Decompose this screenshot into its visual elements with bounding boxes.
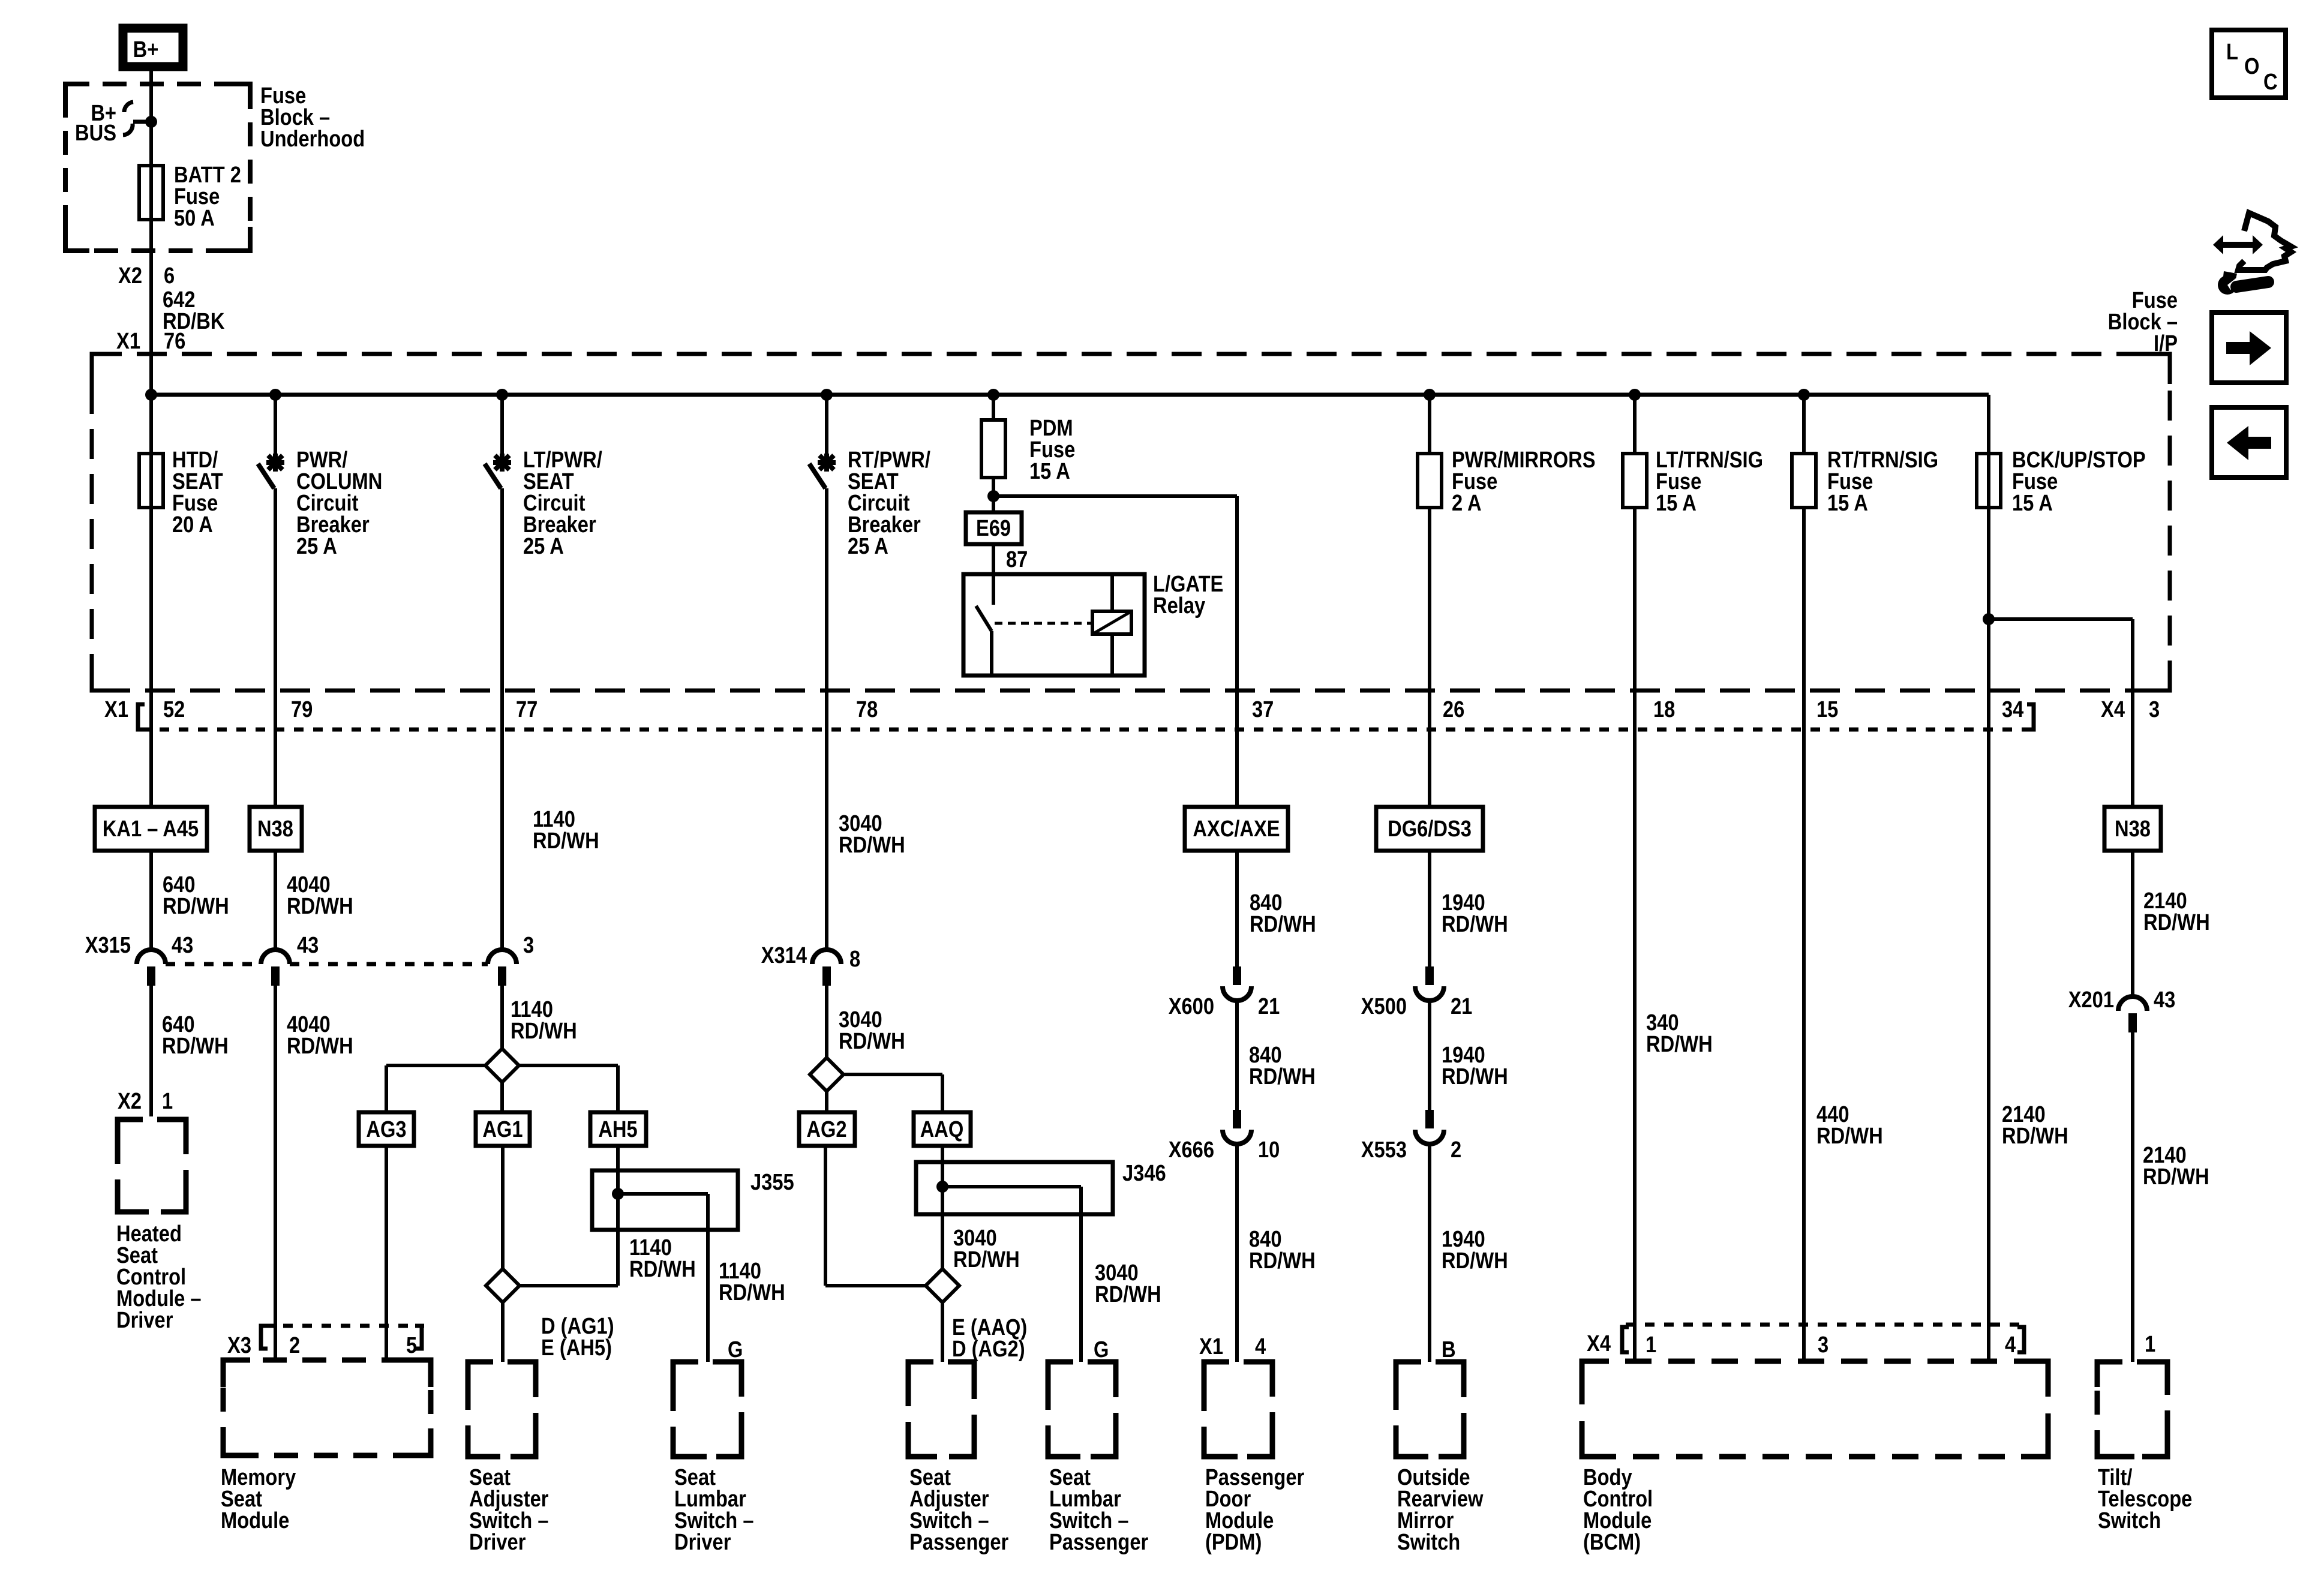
svg-text:37: 37 xyxy=(1252,697,1274,722)
svg-text:87: 87 xyxy=(1006,547,1028,572)
wire AG2 down xyxy=(824,1146,827,1286)
wire bus to LT/PWR/SEAT breaker xyxy=(500,395,504,457)
svg-text:G: G xyxy=(1094,1337,1109,1362)
svg-text:3: 3 xyxy=(2149,697,2160,722)
wire breaker to pin 77 xyxy=(500,488,504,950)
bus junction RT/TRN/SIG xyxy=(1798,389,1810,401)
connector X666 xyxy=(1233,1110,1241,1128)
wire 840 to PDM module xyxy=(1235,1143,1239,1362)
connector N38 (driver) xyxy=(250,807,302,851)
connector X500 xyxy=(1425,966,1434,985)
junction in J355 xyxy=(612,1188,624,1200)
bus junction PDM xyxy=(987,389,999,401)
connector X3 bracket xyxy=(261,1326,268,1349)
svg-text:X1: X1 xyxy=(116,328,140,354)
connector X201 xyxy=(2118,996,2147,1011)
junction B+ bus xyxy=(145,116,157,128)
bus junction HTD/SEAT xyxy=(145,389,157,401)
HTD/SEAT fuse 20 A xyxy=(139,454,163,508)
adjustable steering column icon xyxy=(2222,242,2253,248)
wire 640 to heated seat module xyxy=(149,983,153,1116)
svg-text:G: G xyxy=(728,1337,743,1362)
bus junction PWR/COLUMN xyxy=(269,389,281,401)
svg-text:J355: J355 xyxy=(750,1169,794,1195)
connector X3 dotted line at memory seat module xyxy=(264,1324,424,1328)
svg-text:43: 43 xyxy=(2154,987,2175,1013)
connector X1 bracket xyxy=(138,704,145,730)
svg-text:X2: X2 xyxy=(118,263,142,289)
connector X4 end bracket xyxy=(2017,1327,2024,1352)
passenger door module box xyxy=(1204,1362,1272,1457)
circuit breaker PWR/COLUMN 25 A xyxy=(266,454,284,472)
splice diamond (1140 driver upper) xyxy=(485,1049,519,1082)
connector AXC/AXE xyxy=(1185,807,1288,851)
wire breaker to pin 79 xyxy=(274,488,277,950)
svg-text:X600: X600 xyxy=(1169,993,1214,1019)
wire diamond to seat adjuster driver xyxy=(501,1302,505,1362)
splice AAQ xyxy=(914,1112,971,1146)
LOC reference box xyxy=(2212,30,2286,98)
svg-text:X500: X500 xyxy=(1361,993,1407,1019)
svg-text:E69: E69 xyxy=(976,515,1011,541)
wire bus to RT/PWR/SEAT breaker xyxy=(825,395,828,457)
splice AG3 xyxy=(359,1112,414,1146)
wire diamond to AG3 xyxy=(386,1064,486,1067)
junction below PDM fuse xyxy=(987,490,999,502)
svg-text:N38: N38 xyxy=(257,816,293,842)
wire J355 tap xyxy=(618,1192,708,1196)
svg-text:AH5: AH5 xyxy=(598,1116,637,1142)
wire diamond to AG2 xyxy=(825,1091,828,1112)
svg-text:3: 3 xyxy=(1818,1332,1828,1358)
svg-text:43: 43 xyxy=(172,932,193,958)
bus junction LT/PWR/SEAT xyxy=(496,389,508,401)
splice diamond passenger seat adjuster xyxy=(926,1269,959,1302)
junction in J346 xyxy=(936,1181,948,1193)
splice AG2 xyxy=(799,1112,855,1146)
wire bus to PDM fuse xyxy=(992,395,995,420)
connector X4 bracket xyxy=(1622,1327,1629,1352)
wire AAQ into J346 xyxy=(941,1146,944,1214)
circuit breaker LT/PWR/SEAT 25 A xyxy=(493,454,511,472)
body control module box xyxy=(1582,1361,2048,1457)
wire 4040 to memory seat module xyxy=(274,983,277,1362)
splice diamond driver seat adjuster xyxy=(486,1269,520,1302)
svg-text:4: 4 xyxy=(1255,1334,1266,1359)
wire J355 to seat lumbar driver G xyxy=(706,1194,710,1362)
svg-text:DG6/DS3: DG6/DS3 xyxy=(1388,816,1472,842)
wire RT/TRN/SIG fuse to BCM pin 3 xyxy=(1802,507,1806,1362)
wire J346 to seat lumbar passenger G xyxy=(1079,1187,1083,1362)
svg-text:D (AG1)E (AH5): D (AG1)E (AH5) xyxy=(541,1313,614,1361)
tilt/telescope switch box xyxy=(2097,1362,2167,1457)
wire AH5 into J355 xyxy=(616,1146,620,1230)
svg-text:X666: X666 xyxy=(1169,1137,1214,1163)
seat adjuster switch driver box xyxy=(468,1362,536,1457)
svg-text:X3: X3 xyxy=(227,1332,251,1358)
svg-text:X201: X201 xyxy=(2068,987,2114,1013)
svg-text:26: 26 xyxy=(1443,697,1464,722)
L/GATE relay xyxy=(963,574,1145,676)
wire B+ to fuse block underhood xyxy=(149,71,153,950)
wire junction to PDM branch xyxy=(993,494,1237,498)
svg-text:B+: B+ xyxy=(133,37,159,62)
svg-text:76: 76 xyxy=(164,328,185,354)
seat lumbar switch passenger box xyxy=(1048,1362,1116,1457)
bus junction RT/PWR/SEAT xyxy=(821,389,833,401)
wire AAQ below J346 xyxy=(941,1214,944,1269)
wire PWR/MIRRORS fuse down xyxy=(1428,507,1431,966)
svg-text:77: 77 xyxy=(516,697,538,722)
svg-text:PDMFuse15 A: PDMFuse15 A xyxy=(1029,415,1075,484)
wire BCK/UP/STOP fuse to BCM pin 4 xyxy=(1987,507,1990,1362)
connector DG6/DS3 xyxy=(1376,807,1483,851)
svg-text:X4: X4 xyxy=(2101,697,2125,722)
connector X315 terminal 3 (1140) xyxy=(488,950,517,964)
wire to driver adjuster diamond xyxy=(520,1284,618,1287)
splice AH5 xyxy=(590,1112,646,1146)
svg-text:21: 21 xyxy=(1258,993,1280,1019)
fuse block underhood dashed box xyxy=(65,84,250,251)
connector X4 dotted line at BCM xyxy=(1626,1323,2022,1327)
svg-text:34: 34 xyxy=(2002,697,2024,722)
svg-text:X315: X315 xyxy=(85,932,131,958)
B+ power symbol box xyxy=(123,28,183,67)
wire 1940 to X553 xyxy=(1428,1000,1431,1110)
B+ BUS terminal symbol xyxy=(124,102,133,112)
connector X1 end bracket xyxy=(2027,704,2034,730)
wire 1140 to splice diamond xyxy=(500,983,504,1049)
bus wire inside fuse block xyxy=(151,393,1989,397)
bus junction PWR/MIRRORS xyxy=(1424,389,1436,401)
svg-text:X1: X1 xyxy=(1199,1334,1223,1359)
wire 840 to X666 xyxy=(1235,1000,1239,1110)
svg-text:X1: X1 xyxy=(104,697,128,722)
wire diamond to seat adjuster passenger xyxy=(941,1302,944,1362)
wire down to AH5 xyxy=(616,1065,620,1112)
wire bus to LT/TRN/SIG fuse xyxy=(1633,395,1637,454)
svg-text:E (AAQ)D (AG2): E (AAQ)D (AG2) xyxy=(952,1314,1027,1362)
svg-text:43: 43 xyxy=(297,932,319,958)
junction below BCK/UP/STOP fuse xyxy=(1983,613,1995,625)
svg-text:10: 10 xyxy=(1258,1137,1280,1163)
inline connector X315 dotted line xyxy=(166,962,261,966)
svg-text:1: 1 xyxy=(162,1088,173,1114)
wire E69 to relay pin 87 xyxy=(992,544,995,574)
wire AG3 to memory seat pin 5 xyxy=(385,1146,388,1362)
connector X314 terminal 8 xyxy=(812,950,841,964)
svg-text:J346: J346 xyxy=(1122,1160,1166,1186)
svg-text:B: B xyxy=(1442,1337,1456,1362)
svg-text:AG1: AG1 xyxy=(482,1116,523,1142)
svg-text:X4: X4 xyxy=(1587,1331,1611,1356)
svg-text:6: 6 xyxy=(164,263,175,289)
wire to passenger adjuster diamond xyxy=(825,1284,926,1287)
wire breaker to pin 78 xyxy=(825,488,828,950)
wire PDM fuse to E69 xyxy=(992,478,995,512)
svg-text:AXC/AXE: AXC/AXE xyxy=(1193,816,1280,842)
connector X3 end bracket xyxy=(415,1326,422,1349)
wire bus to RT/TRN/SIG fuse xyxy=(1802,395,1806,454)
outside rearview mirror switch box xyxy=(1396,1362,1464,1457)
svg-text:18: 18 xyxy=(1653,697,1675,722)
svg-text:79: 79 xyxy=(291,697,313,722)
svg-text:1: 1 xyxy=(1646,1332,1656,1358)
wire 1940 to mirror switch xyxy=(1428,1143,1431,1362)
heated seat control module box xyxy=(118,1119,186,1212)
svg-text:AAQ: AAQ xyxy=(920,1116,964,1142)
connector X315 terminal 43 (640) xyxy=(137,950,166,964)
svg-text:4: 4 xyxy=(2005,1332,2016,1358)
svg-text:3: 3 xyxy=(523,932,534,958)
memory seat module box xyxy=(223,1360,431,1455)
wire diamond to AAQ xyxy=(843,1073,942,1076)
splice diamond (3040 passenger upper) xyxy=(810,1058,843,1091)
seat adjuster switch passenger box xyxy=(908,1362,974,1457)
BCK/UP/STOP fuse 15 A xyxy=(1977,454,2001,508)
splice pack J355 xyxy=(592,1170,738,1230)
forward reference arrow box xyxy=(2212,313,2286,383)
svg-text:X2: X2 xyxy=(118,1088,142,1114)
connector X1 dotted line at fuse block bottom xyxy=(140,728,2038,732)
wire AH5 below J355 xyxy=(616,1230,620,1286)
wire 3040 to splice diamond xyxy=(825,983,828,1058)
wire fuse to KA1 connector pin 52 xyxy=(149,507,153,950)
connector X315 terminal 43 (4040) xyxy=(261,950,290,964)
fuse block I/P dashed box xyxy=(92,354,2170,691)
wire bus to PWR/MIRRORS fuse xyxy=(1428,395,1431,454)
svg-text:78: 78 xyxy=(856,697,878,722)
wire 2140 to tilt switch xyxy=(2131,1032,2134,1362)
seat lumbar switch driver box xyxy=(673,1362,741,1457)
wire down to AAQ xyxy=(941,1074,944,1112)
terminal E69 xyxy=(966,512,1022,544)
wire J346 tap xyxy=(942,1185,1081,1188)
splice AG1 xyxy=(476,1112,530,1146)
svg-text:2: 2 xyxy=(1451,1137,1461,1163)
wire bus to PWR/COLUMN breaker xyxy=(274,395,277,457)
wire tilt branch down to X4 pin 3 xyxy=(2131,619,2134,996)
svg-text:O: O xyxy=(2244,53,2259,79)
wire junction to tilt branch xyxy=(1989,617,2133,621)
wire diamond to AG1 xyxy=(500,1082,504,1112)
svg-text:KA1 – A45: KA1 – A45 xyxy=(103,816,199,842)
wire diamond to AH5 xyxy=(518,1064,618,1067)
svg-text:AG2: AG2 xyxy=(806,1116,846,1142)
svg-text:5: 5 xyxy=(406,1332,417,1358)
svg-text:52: 52 xyxy=(163,697,185,722)
bus corner down to BCK/UP/STOP fuse xyxy=(1987,395,1990,619)
svg-text:15: 15 xyxy=(1816,697,1838,722)
svg-text:AG3: AG3 xyxy=(366,1116,406,1142)
svg-text:X553: X553 xyxy=(1361,1137,1407,1163)
svg-text:8: 8 xyxy=(849,946,860,972)
backward reference arrow box xyxy=(2212,407,2286,478)
svg-text:L: L xyxy=(2226,39,2238,65)
wire LT/TRN/SIG fuse to BCM pin 1 xyxy=(1633,507,1637,1362)
splice pack J346 xyxy=(916,1162,1113,1214)
circuit breaker RT/PWR/SEAT 25 A xyxy=(818,454,836,472)
svg-text:21: 21 xyxy=(1451,993,1472,1019)
connector X553 xyxy=(1425,1110,1434,1128)
connector X600 xyxy=(1233,966,1241,985)
wire down to AG3 xyxy=(385,1065,388,1112)
svg-text:1: 1 xyxy=(2145,1331,2155,1357)
bus junction LT/TRN/SIG xyxy=(1629,389,1641,401)
svg-text:N38: N38 xyxy=(2115,816,2151,842)
svg-text:C: C xyxy=(2263,69,2278,95)
fuse BATT 2 50 A xyxy=(139,166,163,220)
connector N38 (tilt) xyxy=(2104,807,2161,851)
svg-text:2: 2 xyxy=(289,1332,300,1358)
wire PDM branch down to pin 37 xyxy=(1235,496,1239,966)
wire AG1 down to driver seat diamond xyxy=(501,1146,505,1269)
svg-text:X314: X314 xyxy=(761,942,807,968)
connector KA1 - A45 xyxy=(95,807,207,851)
